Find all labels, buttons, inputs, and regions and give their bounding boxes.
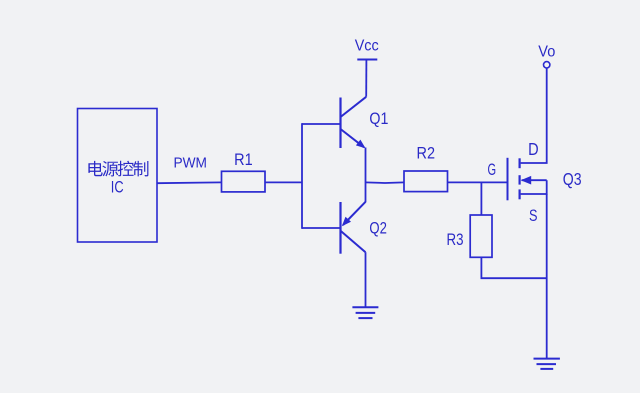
terminal Vo circle [544,62,550,68]
svg-text:G: G [488,161,497,179]
ground symbol at Q2 collector [352,252,378,318]
svg-text:R3: R3 [447,230,464,249]
wire node to R2 [366,181,405,184]
svg-text:S: S [529,206,538,225]
resistor R2 [404,171,448,192]
Q3 channel dashes [518,158,520,199]
pin label S [529,206,538,225]
label R3 [447,230,464,249]
Q3 drain connection D [521,68,547,163]
svg-text:Vo: Vo [538,44,555,61]
power control IC box U1 [78,109,158,243]
wire gate node to R3 [480,182,482,215]
transistor Q3 MOSFET gate line [507,158,509,201]
label Q3 [563,169,582,189]
svg-text:D: D [528,139,539,159]
wire PWM net: IC pin to R1 [157,181,222,184]
label R2 [417,144,436,163]
ground symbol at source [534,359,560,369]
pin label D [528,139,539,159]
wire source down to ground [546,194,548,359]
svg-text:Q1: Q1 [369,110,388,128]
svg-text:Q3: Q3 [563,169,582,189]
svg-text:PWM: PWM [173,154,207,171]
label Q2 [369,220,387,238]
svg-text:Vcc: Vcc [355,37,379,54]
wire emitter junction node [365,148,367,203]
wire R2 to gate G [448,181,507,183]
wire R1 to base node [265,181,302,183]
wire base of Q1 [302,123,341,125]
wire base bus vertical [301,123,303,229]
svg-text:IC: IC [111,177,124,196]
resistor R1 [222,171,266,192]
Q3 body arrow [521,176,547,185]
svg-text:R1: R1 [234,150,253,169]
pin label G [488,161,497,179]
label R1 [234,150,253,169]
IC label line2 "IC" [111,177,124,196]
wire base of Q2 [302,227,341,229]
transistor Q2 (PNP) [341,202,366,254]
wire R3 bottom to source [481,257,546,278]
transistor Q1 (NPN) [341,97,367,149]
label Q1 [369,110,388,128]
svg-text:R2: R2 [417,144,436,163]
resistor R3 [470,215,492,257]
power label Vcc [355,37,379,54]
net label PWM [173,154,207,171]
svg-text:Q2: Q2 [369,220,387,238]
IC label line1 电源控制 [88,161,148,177]
Q3 source connection S [521,180,547,194]
wire Q1 collector to Vcc [365,60,367,97]
output label Vo [538,44,555,61]
Vcc terminal bar [357,59,377,61]
